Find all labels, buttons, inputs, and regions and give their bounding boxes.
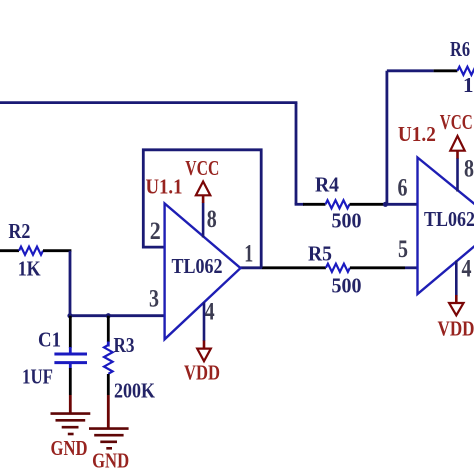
svg-text:TL062: TL062 (424, 207, 474, 231)
wire U1.1 feedback box pin2 to pin1 (143, 150, 261, 268)
svg-text:2: 2 (150, 218, 161, 245)
svg-text:8: 8 (207, 206, 217, 233)
svg-text:U1.1: U1.1 (146, 175, 183, 199)
wire R3 bottom lead (107, 374, 110, 395)
ground GND1 (51, 414, 91, 434)
svg-text:R5: R5 (308, 242, 332, 266)
svg-text:VCC: VCC (440, 110, 473, 134)
node junction C1 (67, 313, 72, 318)
wire R2 right lead (43, 249, 71, 252)
svg-text:5: 5 (398, 236, 408, 263)
svg-text:GND: GND (51, 436, 88, 460)
svg-text:3: 3 (149, 286, 159, 313)
resistor R6 (457, 67, 474, 75)
wire pin6 stub (385, 203, 418, 206)
pin 4 stem U1.1 (203, 302, 206, 341)
wire top horizontal net (0, 101, 297, 104)
wire R4 left lead (295, 203, 304, 206)
svg-text:U1.2: U1.2 (398, 122, 436, 146)
svg-text:VCC: VCC (185, 156, 219, 180)
power VCC arrow U1.1 (196, 182, 210, 196)
svg-text:VDD: VDD (438, 317, 474, 341)
svg-text:R3: R3 (114, 333, 135, 357)
svg-text:200K: 200K (114, 378, 156, 402)
wire output U1.1 pin1 to R5 (241, 266, 263, 269)
resistor R2 (19, 247, 43, 255)
svg-text:500: 500 (332, 209, 362, 233)
wire input node to pin3 (70, 314, 166, 317)
svg-text:R2: R2 (8, 219, 30, 243)
wire R6 vertical feedback (385, 71, 388, 205)
wire R4 right lead (350, 203, 386, 206)
ground GND2 (89, 429, 129, 449)
wire vertical drop to R4 (295, 103, 298, 205)
op-amp U1.1 (165, 204, 241, 340)
wire R5 right lead to pin5 (350, 266, 405, 269)
svg-text:TL062: TL062 (172, 254, 223, 278)
node junction R4/R6 (383, 202, 388, 207)
wire R3 top lead (107, 316, 110, 342)
wire C1 top lead (69, 316, 72, 348)
wire R2 vertical drop (69, 251, 72, 316)
capacitor C1 (54, 353, 87, 356)
svg-text:1: 1 (463, 73, 474, 97)
svg-text:1: 1 (244, 241, 253, 268)
svg-text:8: 8 (464, 156, 474, 183)
resistor R3 (104, 345, 113, 374)
pin 4 stem U1.2 (455, 261, 458, 296)
wire C1 bottom lead (69, 364, 72, 369)
svg-text:R6: R6 (450, 37, 470, 61)
svg-text:500: 500 (332, 274, 362, 298)
svg-text:1UF: 1UF (22, 365, 53, 389)
wire R6 left lead (387, 69, 434, 72)
power VDD arrow U1.2 (449, 303, 463, 315)
svg-text:GND: GND (92, 449, 129, 473)
svg-text:C1: C1 (38, 328, 61, 352)
op-amp U1.2 (418, 158, 474, 295)
svg-text:4: 4 (462, 256, 472, 283)
svg-text:1K: 1K (18, 257, 42, 281)
svg-text:R4: R4 (315, 173, 339, 197)
pin 8 stem U1.1 (202, 203, 205, 238)
power VCC arrow U1.2 (450, 136, 464, 151)
wire R2 left lead (0, 249, 19, 252)
resistor R5 (326, 264, 350, 272)
resistor R4 (326, 200, 350, 208)
svg-text:6: 6 (398, 174, 408, 201)
svg-text:4: 4 (205, 299, 215, 326)
pin 8 stem U1.2 (456, 158, 459, 192)
power VDD arrow U1.1 (197, 349, 211, 362)
node junction R3 (106, 313, 111, 318)
svg-text:VDD: VDD (184, 360, 220, 384)
